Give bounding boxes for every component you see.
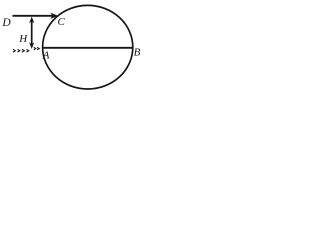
circle <box>43 5 133 89</box>
chord A B <box>43 47 133 49</box>
svg-text:A: A <box>42 50 50 62</box>
double arrow H (stem) <box>31 20 33 46</box>
arrowhead at C <box>50 13 58 19</box>
arrowhead up <box>29 17 34 24</box>
svg-text:H: H <box>18 33 28 45</box>
svg-text:B: B <box>134 47 141 59</box>
svg-text:C: C <box>58 16 66 28</box>
dashed chevron line <box>13 49 29 52</box>
svg-text:D: D <box>1 17 11 29</box>
wire: line D to C <box>13 15 54 17</box>
dashes right of arrow <box>34 47 39 49</box>
arrowhead down <box>29 42 34 49</box>
